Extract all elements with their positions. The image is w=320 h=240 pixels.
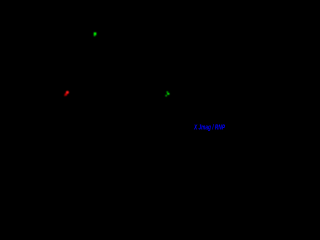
green star top center xyxy=(94,32,97,36)
svg-text:X Jmag / RNP: X Jmag / RNP xyxy=(193,124,225,131)
green chevron star bottom right xyxy=(165,91,169,96)
red double star bottom left xyxy=(64,91,69,96)
